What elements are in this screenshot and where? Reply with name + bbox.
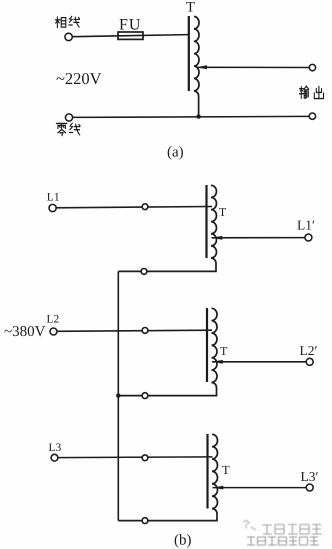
svg-text:FU: FU — [119, 17, 141, 34]
svg-text:L3: L3 — [49, 442, 62, 454]
svg-text:(a): (a) — [167, 145, 184, 161]
svg-text:T: T — [222, 463, 230, 477]
svg-text:L1: L1 — [47, 192, 60, 204]
svg-text:T: T — [186, 0, 195, 16]
svg-text:~220V: ~220V — [56, 69, 102, 88]
svg-text:L2: L2 — [47, 313, 60, 325]
svg-text:T: T — [219, 205, 227, 219]
svg-text:(b): (b) — [174, 533, 192, 549]
svg-text:L1′: L1′ — [297, 217, 315, 232]
svg-text:~380V: ~380V — [4, 324, 46, 340]
svg-text:L2′: L2′ — [300, 343, 318, 358]
svg-text:L3′: L3′ — [301, 469, 319, 484]
svg-text:T: T — [220, 344, 228, 358]
